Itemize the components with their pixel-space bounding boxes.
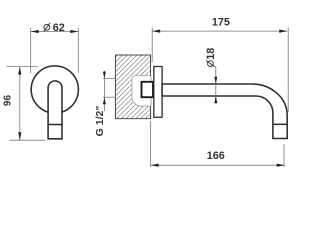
svg-text:18: 18 — [205, 48, 217, 60]
svg-text:166: 166 — [207, 150, 225, 162]
svg-text:175: 175 — [212, 16, 230, 28]
svg-text:G 1/2": G 1/2" — [94, 106, 106, 137]
svg-text:96: 96 — [3, 95, 14, 107]
svg-text:62: 62 — [53, 22, 65, 34]
